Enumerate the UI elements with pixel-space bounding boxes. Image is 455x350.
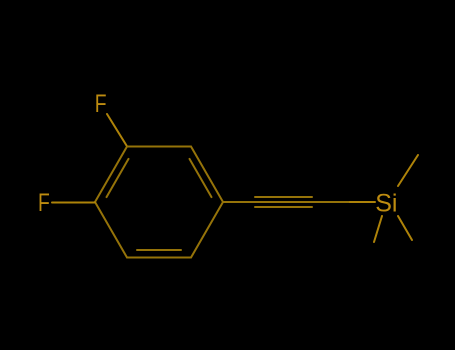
svg-text:Si: Si — [375, 189, 397, 217]
svg-text:F: F — [95, 90, 107, 118]
svg-text:F: F — [38, 189, 50, 217]
